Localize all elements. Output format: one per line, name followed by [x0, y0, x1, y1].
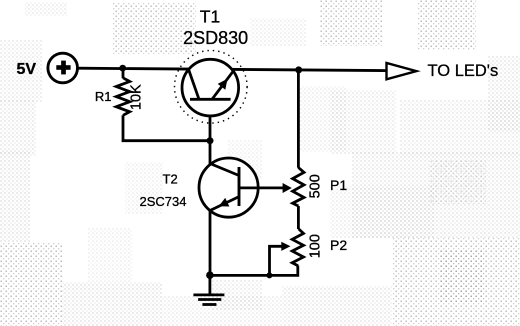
output arrow (open triangle): [387, 63, 417, 79]
label TO LED's: [428, 62, 499, 80]
node: junction R1 / T1 base / T2 collector: [207, 137, 214, 144]
P2 wiper arrow: [281, 242, 290, 251]
label 2SD830: [183, 28, 248, 48]
transistor T1 base bar: [190, 98, 231, 101]
wire: junction down to R1 top: [122, 68, 125, 78]
svg-text:500: 500: [307, 174, 323, 198]
wire: P1 bottom to P2 top: [297, 206, 300, 229]
potentiometer P1 zigzag: [293, 168, 304, 207]
wire: main horizontal 5V rail from source to output arrow: [77, 68, 387, 70]
node: junction rail / P1 branch: [295, 66, 302, 73]
transistor T2 emitter line with arrow: [210, 197, 239, 211]
P1 wiper arrow: [283, 183, 292, 193]
value label 100 (rotated): [307, 234, 323, 258]
node: ground junction: [206, 271, 214, 279]
label P1: [330, 177, 347, 193]
resistor R1 zigzag: [116, 78, 130, 116]
wire: junction down to P1 top: [297, 70, 300, 168]
transistor T2 body circle: [199, 158, 258, 217]
svg-text:10K: 10K: [129, 84, 145, 110]
label T1: [200, 7, 220, 27]
wire: T2 emitter down to ground: [209, 211, 212, 276]
transistor T2 collector line: [210, 164, 239, 176]
svg-text:2SD830: 2SD830: [183, 28, 248, 48]
label R1: [95, 89, 112, 104]
svg-text:100: 100: [307, 234, 323, 258]
potentiometer P2 zigzag: [292, 229, 303, 266]
svg-text:T1: T1: [200, 7, 220, 27]
label 2SC734: [140, 194, 187, 209]
transistor T1 collector line: [189, 70, 199, 100]
5V source symbol (circle with plus): [48, 53, 78, 83]
svg-text:TO LED's: TO LED's: [428, 62, 499, 80]
ground symbol: [193, 275, 224, 304]
svg-text:P1: P1: [330, 177, 347, 193]
label 5V: [17, 61, 37, 78]
highlight: dotted circle around T1: [175, 51, 248, 124]
wire: P2 wiper feedback to ground rail: [270, 246, 283, 275]
wire: T1 base lead down to T2 collector: [209, 99, 212, 165]
label T2: [163, 172, 178, 187]
transistor T2 base bar: [238, 167, 241, 206]
svg-text:R1: R1: [95, 89, 112, 104]
svg-text:T2: T2: [163, 172, 178, 187]
node: junction P2 wiper / ground rail: [266, 272, 272, 278]
value label 500 (rotated): [307, 174, 323, 198]
wire: P2 bottom to ground rail: [210, 266, 298, 276]
svg-text:P2: P2: [330, 237, 347, 253]
svg-text:5V: 5V: [17, 61, 37, 78]
wire: R1 bottom to T1 base vertical: [123, 115, 210, 140]
svg-text:2SC734: 2SC734: [140, 194, 187, 209]
transistor T1 body circle: [182, 59, 239, 116]
wire: T2 base lead to P1 wiper: [239, 186, 284, 189]
transistor T1 emitter line with arrow: [212, 71, 234, 100]
node: junction of rail and R1: [119, 65, 126, 72]
value label 10K (rotated): [129, 84, 145, 110]
label P2: [330, 237, 347, 253]
